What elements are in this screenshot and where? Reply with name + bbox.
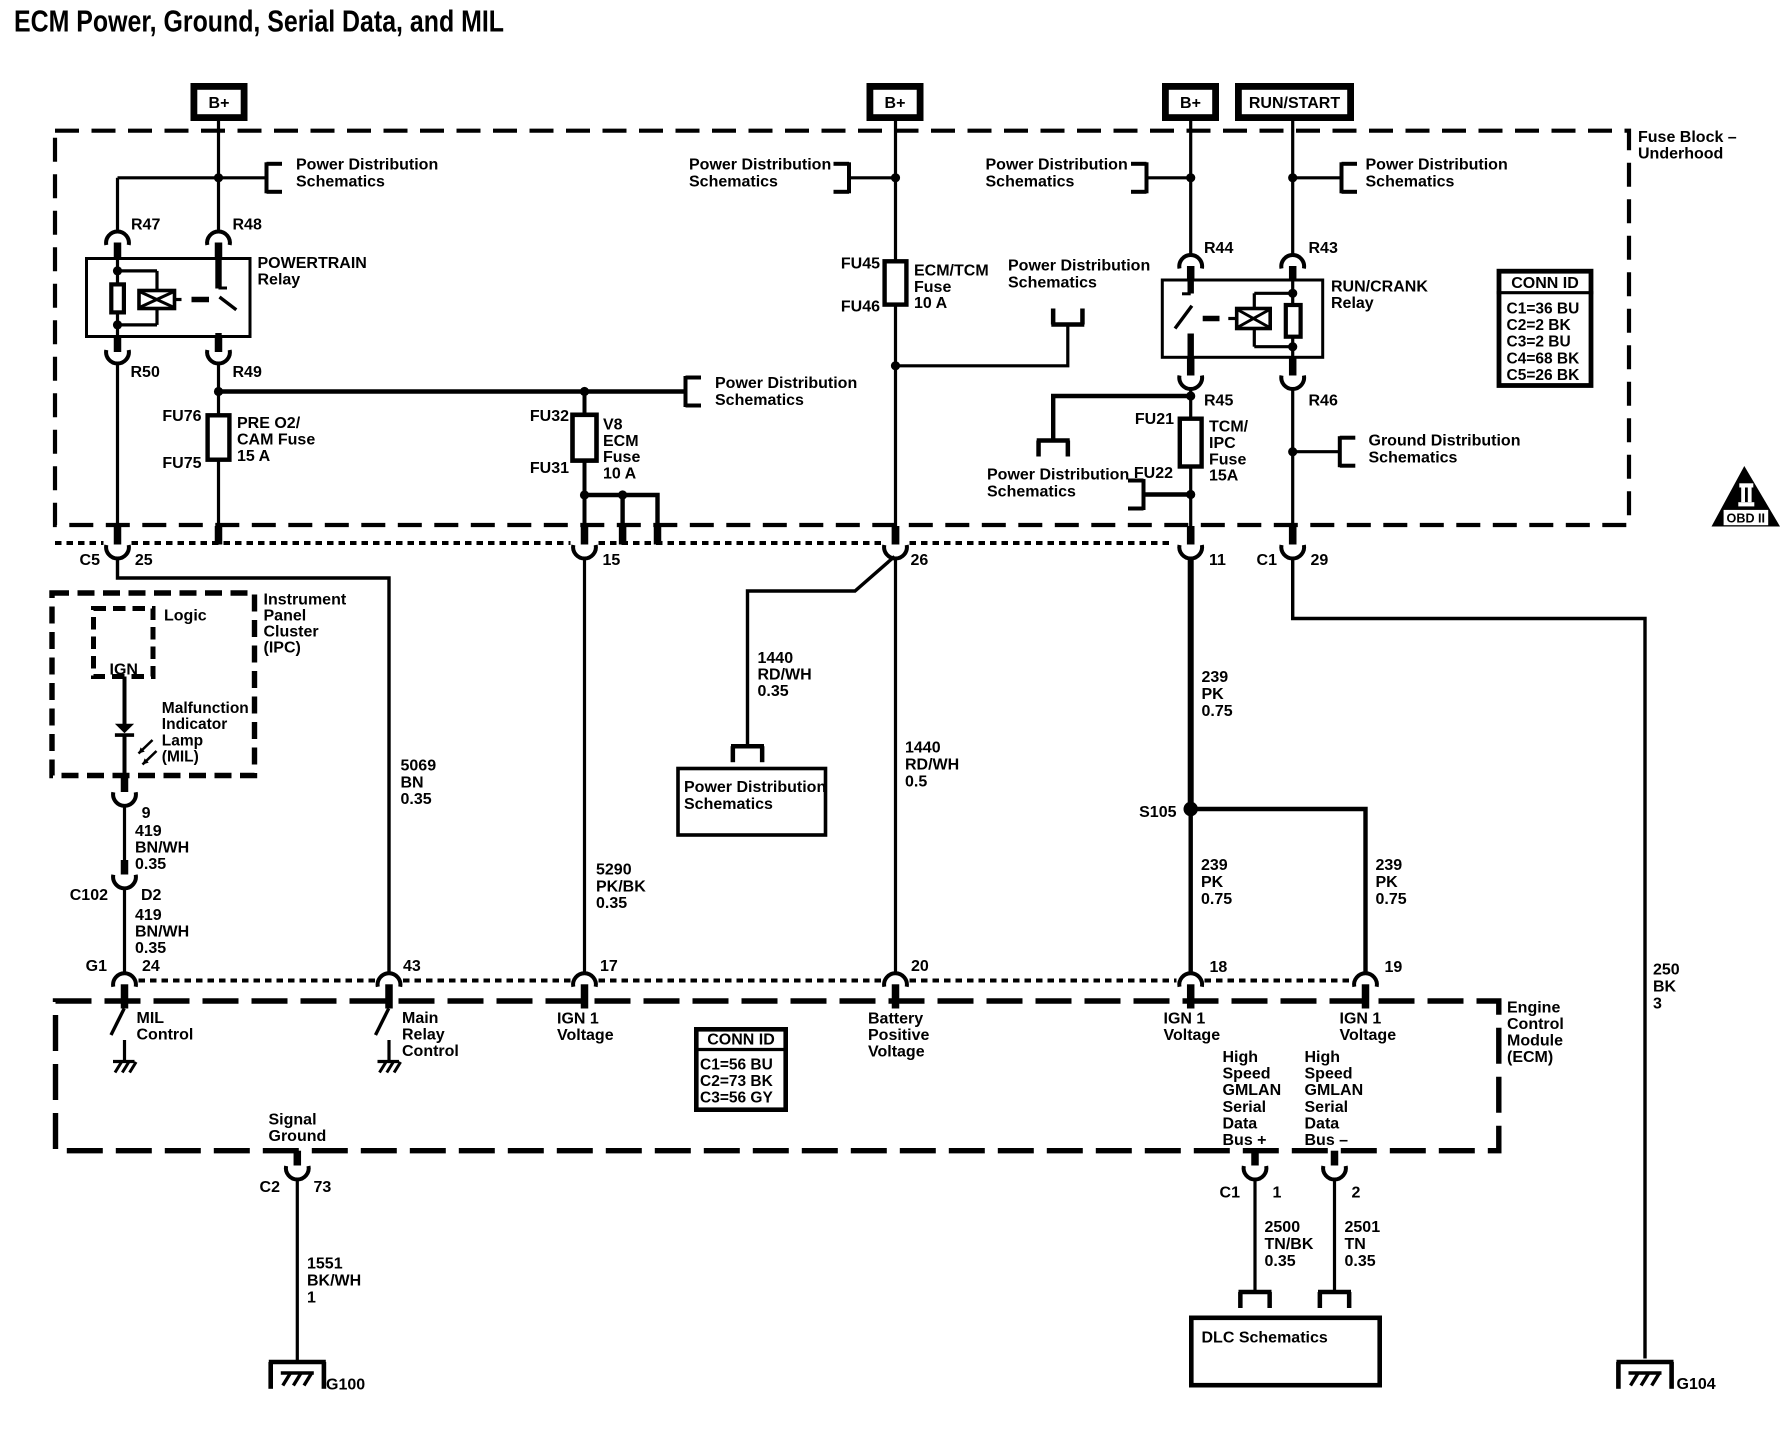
svg-text:Fuse Block –: Fuse Block –	[1638, 129, 1737, 146]
svg-text:Fuse: Fuse	[1209, 451, 1246, 468]
svg-text:Schematics: Schematics	[689, 174, 778, 191]
svg-text:0.75: 0.75	[1202, 703, 1233, 720]
svg-text:B+: B+	[209, 95, 230, 112]
svg-text:Fuse: Fuse	[914, 279, 951, 296]
svg-text:CONN ID: CONN ID	[707, 1032, 775, 1049]
svg-text:1551: 1551	[307, 1256, 343, 1273]
svg-text:2: 2	[1352, 1185, 1361, 1202]
svg-text:5069: 5069	[401, 758, 437, 775]
svg-text:419: 419	[135, 823, 162, 840]
svg-text:PK: PK	[1376, 874, 1399, 891]
svg-text:Malfunction: Malfunction	[162, 700, 249, 717]
svg-text:RUN/CRANK: RUN/CRANK	[1331, 279, 1428, 296]
svg-text:Bus +: Bus +	[1223, 1132, 1267, 1149]
svg-text:15A: 15A	[1209, 468, 1239, 485]
svg-text:Voltage: Voltage	[557, 1027, 614, 1044]
svg-text:0.35: 0.35	[401, 791, 432, 808]
svg-text:Schematics: Schematics	[684, 796, 773, 813]
svg-text:0.35: 0.35	[758, 683, 789, 700]
svg-text:IGN 1: IGN 1	[1164, 1011, 1206, 1028]
svg-text:Serial: Serial	[1223, 1099, 1267, 1116]
svg-text:Underhood: Underhood	[1638, 146, 1723, 163]
svg-text:ECM: ECM	[603, 433, 639, 450]
svg-text:2501: 2501	[1345, 1219, 1381, 1236]
svg-text:FU75: FU75	[162, 455, 201, 472]
svg-text:Voltage: Voltage	[868, 1044, 925, 1061]
svg-text:OBD II: OBD II	[1727, 511, 1765, 525]
svg-text:26: 26	[911, 552, 929, 569]
svg-text:C1: C1	[1220, 1185, 1241, 1202]
svg-text:DLC Schematics: DLC Schematics	[1202, 1330, 1328, 1347]
svg-text:S105: S105	[1139, 804, 1176, 821]
svg-text:RUN/START: RUN/START	[1249, 95, 1340, 112]
svg-text:0.75: 0.75	[1201, 891, 1232, 908]
svg-text:BN: BN	[401, 774, 424, 791]
svg-text:Schematics: Schematics	[715, 392, 804, 409]
svg-text:Module: Module	[1507, 1033, 1563, 1050]
svg-text:C1=56 BU: C1=56 BU	[700, 1057, 773, 1074]
svg-text:BK/WH: BK/WH	[307, 1273, 361, 1290]
svg-text:239: 239	[1376, 857, 1403, 874]
svg-text:20: 20	[911, 958, 929, 975]
svg-text:Power Distribution: Power Distribution	[986, 157, 1128, 174]
svg-text:D2: D2	[141, 887, 162, 904]
svg-text:R49: R49	[233, 364, 262, 381]
svg-text:FU21: FU21	[1135, 411, 1174, 428]
svg-text:250: 250	[1653, 962, 1680, 979]
svg-text:B+: B+	[1180, 95, 1201, 112]
svg-text:C2=2 BK: C2=2 BK	[1507, 317, 1572, 334]
svg-text:0.35: 0.35	[1265, 1253, 1296, 1270]
svg-text:C4=68 BK: C4=68 BK	[1507, 350, 1581, 367]
svg-text:Panel: Panel	[264, 608, 307, 625]
svg-text:FU32: FU32	[530, 408, 569, 425]
svg-text:Speed: Speed	[1223, 1066, 1271, 1083]
svg-text:10 A: 10 A	[914, 295, 948, 312]
svg-text:0.35: 0.35	[135, 856, 166, 873]
svg-text:FU46: FU46	[841, 299, 880, 316]
svg-text:R45: R45	[1204, 393, 1233, 410]
svg-text:Schematics: Schematics	[986, 174, 1075, 191]
svg-text:Instrument: Instrument	[264, 592, 347, 609]
svg-text:15: 15	[603, 552, 621, 569]
svg-text:IGN: IGN	[110, 662, 138, 679]
svg-text:R44: R44	[1204, 240, 1233, 257]
svg-text:Schematics: Schematics	[1369, 450, 1458, 467]
svg-text:(IPC): (IPC)	[264, 640, 301, 657]
svg-text:CONN ID: CONN ID	[1511, 275, 1579, 292]
svg-text:Power Distribution: Power Distribution	[715, 375, 857, 392]
svg-text:R47: R47	[131, 217, 160, 234]
svg-text:TCM/: TCM/	[1209, 419, 1249, 436]
svg-text:Schematics: Schematics	[296, 174, 385, 191]
svg-text:GMLAN: GMLAN	[1223, 1082, 1282, 1099]
svg-text:Data: Data	[1305, 1115, 1340, 1132]
svg-text:Control: Control	[1507, 1016, 1564, 1033]
svg-text:Schematics: Schematics	[1008, 275, 1097, 292]
svg-text:Fuse: Fuse	[603, 449, 640, 466]
svg-text:C1=36 BU: C1=36 BU	[1507, 300, 1580, 317]
svg-text:PK: PK	[1202, 686, 1225, 703]
svg-text:5290: 5290	[596, 862, 632, 879]
svg-text:1440: 1440	[905, 740, 941, 757]
svg-text:25: 25	[135, 552, 153, 569]
svg-text:Indicator: Indicator	[162, 716, 227, 733]
svg-text:BN/WH: BN/WH	[135, 840, 189, 857]
svg-text:Control: Control	[137, 1027, 194, 1044]
svg-text:V8: V8	[603, 417, 623, 434]
svg-text:POWERTRAIN: POWERTRAIN	[258, 255, 367, 272]
svg-text:Relay: Relay	[258, 272, 301, 289]
svg-text:0.35: 0.35	[596, 895, 627, 912]
svg-text:Relay: Relay	[1331, 295, 1374, 312]
svg-text:High: High	[1223, 1049, 1259, 1066]
svg-text:IGN 1: IGN 1	[557, 1011, 599, 1028]
svg-text:11: 11	[1209, 552, 1226, 569]
svg-text:10 A: 10 A	[603, 465, 637, 482]
svg-text:Logic: Logic	[164, 608, 207, 625]
svg-text:Serial: Serial	[1305, 1099, 1349, 1116]
svg-text:PK/BK: PK/BK	[596, 878, 646, 895]
svg-text:3: 3	[1653, 996, 1662, 1013]
svg-text:C2: C2	[260, 1179, 281, 1196]
svg-text:24: 24	[142, 958, 160, 975]
svg-text:R48: R48	[233, 217, 262, 234]
svg-text:1: 1	[1273, 1185, 1282, 1202]
svg-text:Battery: Battery	[868, 1011, 923, 1028]
svg-text:ECM/TCM: ECM/TCM	[914, 263, 989, 280]
svg-text:Voltage: Voltage	[1164, 1027, 1221, 1044]
svg-text:RD/WH: RD/WH	[905, 757, 959, 774]
svg-text:19: 19	[1385, 959, 1403, 976]
svg-text:B+: B+	[885, 95, 906, 112]
svg-text:Bus –: Bus –	[1305, 1132, 1349, 1149]
svg-text:Power Distribution: Power Distribution	[689, 157, 831, 174]
svg-text:Positive: Positive	[868, 1027, 929, 1044]
svg-text:GMLAN: GMLAN	[1305, 1082, 1364, 1099]
svg-text:Cluster: Cluster	[264, 624, 319, 641]
svg-text:BK: BK	[1653, 979, 1677, 996]
svg-text:Control: Control	[402, 1043, 459, 1060]
svg-text:Data: Data	[1223, 1115, 1258, 1132]
svg-text:29: 29	[1311, 552, 1329, 569]
svg-text:1: 1	[307, 1290, 316, 1307]
svg-text:0.35: 0.35	[135, 940, 166, 957]
svg-text:High: High	[1305, 1049, 1341, 1066]
svg-text:TN/BK: TN/BK	[1265, 1236, 1314, 1253]
svg-text:Power Distribution: Power Distribution	[1008, 258, 1150, 275]
svg-text:Relay: Relay	[402, 1027, 445, 1044]
svg-text:Signal: Signal	[269, 1112, 317, 1129]
svg-text:(MIL): (MIL)	[162, 749, 199, 766]
svg-text:239: 239	[1201, 857, 1228, 874]
svg-text:Main: Main	[402, 1010, 438, 1027]
svg-text:239: 239	[1202, 669, 1229, 686]
svg-text:0.5: 0.5	[905, 774, 927, 791]
svg-text:IPC: IPC	[1209, 435, 1236, 452]
svg-text:Engine: Engine	[1507, 1000, 1560, 1017]
svg-text:PRE O2/: PRE O2/	[237, 415, 301, 432]
svg-text:73: 73	[314, 1179, 332, 1196]
svg-text:Speed: Speed	[1305, 1066, 1353, 1083]
svg-text:FU45: FU45	[841, 256, 880, 273]
svg-text:FU76: FU76	[162, 408, 201, 425]
svg-text:TN: TN	[1345, 1236, 1366, 1253]
svg-text:15 A: 15 A	[237, 448, 271, 465]
svg-text:FU31: FU31	[530, 460, 569, 477]
svg-text:Voltage: Voltage	[1340, 1027, 1397, 1044]
svg-text:C1: C1	[1257, 552, 1278, 569]
svg-text:C3=56 GY: C3=56 GY	[700, 1090, 773, 1107]
svg-text:Power Distribution: Power Distribution	[1366, 157, 1508, 174]
svg-text:17: 17	[600, 958, 618, 975]
svg-text:BN/WH: BN/WH	[135, 924, 189, 941]
svg-text:43: 43	[403, 958, 421, 975]
svg-text:Power Distribution: Power Distribution	[987, 467, 1129, 484]
svg-text:RD/WH: RD/WH	[758, 667, 812, 684]
svg-text:Lamp: Lamp	[162, 732, 203, 749]
svg-text:0.75: 0.75	[1376, 891, 1407, 908]
svg-text:C5: C5	[80, 552, 101, 569]
svg-text:G104: G104	[1677, 1376, 1716, 1393]
svg-text:PK: PK	[1201, 874, 1224, 891]
svg-text:Schematics: Schematics	[1366, 174, 1455, 191]
svg-text:419: 419	[135, 907, 162, 924]
svg-text:0.35: 0.35	[1345, 1253, 1376, 1270]
svg-text:G100: G100	[326, 1377, 365, 1394]
svg-text:Power Distribution: Power Distribution	[684, 779, 826, 796]
svg-text:9: 9	[142, 805, 151, 822]
svg-text:1440: 1440	[758, 650, 794, 667]
svg-text:ECM Power, Ground, Serial Data: ECM Power, Ground, Serial Data, and MIL	[14, 4, 504, 39]
svg-text:C5=26 BK: C5=26 BK	[1507, 367, 1581, 384]
svg-text:R43: R43	[1309, 240, 1338, 257]
svg-text:G1: G1	[86, 958, 107, 975]
svg-text:IGN 1: IGN 1	[1340, 1011, 1382, 1028]
svg-text:R46: R46	[1309, 393, 1338, 410]
svg-text:Power Distribution: Power Distribution	[296, 157, 438, 174]
svg-text:Ground Distribution: Ground Distribution	[1369, 433, 1521, 450]
svg-text:C2=73 BK: C2=73 BK	[700, 1073, 774, 1090]
svg-text:(ECM): (ECM)	[1507, 1049, 1553, 1066]
svg-text:2500: 2500	[1265, 1219, 1301, 1236]
svg-text:CAM Fuse: CAM Fuse	[237, 432, 315, 449]
svg-text:Schematics: Schematics	[987, 484, 1076, 501]
svg-text:MIL: MIL	[137, 1010, 165, 1027]
svg-text:18: 18	[1210, 959, 1228, 976]
svg-text:C3=2 BU: C3=2 BU	[1507, 334, 1571, 351]
svg-text:Ground: Ground	[269, 1128, 327, 1145]
svg-text:R50: R50	[131, 364, 160, 381]
svg-text:C102: C102	[70, 887, 108, 904]
